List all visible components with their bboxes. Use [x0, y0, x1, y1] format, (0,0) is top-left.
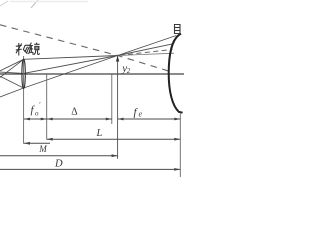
- wire: incoming ray S3b to lens bottom from lower left: [0, 88, 24, 97]
- lens L1 objective ellipse: [22, 59, 25, 89]
- wire: dashed ray from image point to eyepiece: [120, 50, 173, 56]
- wire: faint continuation of ray T1 beyond image point: [118, 53, 174, 55]
- dimension D row: [0, 168, 180, 170]
- dimension M row: [0, 155, 118, 157]
- dimension f'o row: [24, 118, 47, 120]
- svg-text:Δ: Δ: [71, 107, 78, 118]
- wire: incoming steep ray S1b to lens top: [0, 59, 24, 77]
- wire: incoming ray S2 through lens center: [0, 72, 24, 73]
- wire: ray T2 lens center to image point and on to eyepiece: [24, 44, 173, 74]
- dimension delta row: [47, 118, 112, 120]
- dimension L row: [47, 138, 181, 140]
- wire: ray T3 lens bottom to image point and on to eyepiece top: [24, 36, 177, 89]
- label 物镜 objective (hand drawn strokes): [16, 43, 30, 56]
- wire: incoming ray S1 to lens top: [0, 59, 24, 71]
- wire: ray T1 lens top to image point and on to eyepiece: [24, 56, 118, 60]
- wire: optical axis: [0, 73, 184, 75]
- svg-text:o: o: [35, 110, 39, 118]
- node extension line at objective focal point: [46, 74, 48, 140]
- wire: incoming ray S3 to lens bottom: [0, 76, 24, 88]
- wire: dashed chief ray from top-left through image point to eyepiece: [0, 25, 173, 72]
- node image plane extension with y2 arrow: [117, 56, 119, 159]
- node extension line at delta end: [111, 74, 113, 124]
- lens L2 eyepiece arc: [169, 34, 183, 113]
- faint scan smudge along top edge: [10, 1, 88, 3]
- faint corner mark top-left: [0, 1, 8, 6]
- faint mark top: [31, 0, 38, 8]
- label 目镜 eyepiece (hand drawn), clipped at right edge: [175, 25, 181, 34]
- dimension fe row: [118, 118, 181, 120]
- svg-text:2: 2: [127, 67, 131, 75]
- dimension short row under L at lens: [24, 142, 50, 144]
- node extension line at eyepiece plane: [179, 114, 181, 178]
- svg-text:D: D: [54, 159, 63, 170]
- arrowhead of y2 image height arrow: [116, 56, 119, 62]
- node extension line at lens plane: [23, 56, 25, 144]
- svg-text:M: M: [38, 144, 47, 154]
- svg-text:L: L: [96, 128, 103, 139]
- svg-text:e: e: [139, 110, 143, 119]
